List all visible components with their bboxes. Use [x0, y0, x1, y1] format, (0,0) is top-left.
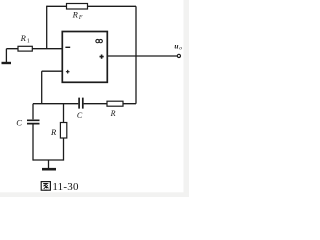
resistor R1: [18, 46, 32, 51]
svg-text:F: F: [78, 15, 83, 21]
wire: parallel R branch vertical lower: [63, 138, 65, 161]
wire: inverting input wire from ground to op-amp: [6, 48, 62, 50]
svg-text:R: R: [20, 33, 27, 43]
resistor R parallel vertical: [60, 123, 66, 139]
terminal uo circle: [177, 54, 180, 57]
wire: feedback left vertical: [46, 6, 48, 49]
op-amp U1 box: [62, 32, 107, 83]
ground at R1 left: lead: [5, 49, 7, 63]
ground bar bottom: [42, 168, 56, 171]
wire: parallel R branch vertical upper: [63, 104, 65, 123]
wire: node B horizontal (right part from series C to corner): [84, 103, 136, 105]
svg-text:C: C: [77, 111, 83, 120]
svg-text:11-30: 11-30: [52, 181, 79, 193]
caption glyph 图 (drawn): [41, 182, 50, 191]
wire: right vertical from top wire through output down to RC branch: [135, 6, 137, 103]
capacitor C series: plates: [79, 98, 83, 109]
svg-text:1: 1: [27, 38, 30, 44]
wire: non-inverting input horizontal: [42, 70, 63, 72]
ground at bottom: lead: [48, 160, 50, 168]
svg-text:u: u: [174, 41, 178, 50]
op-amp infinity gain symbol: [96, 39, 103, 42]
page edge shading right: [184, 0, 190, 197]
resistor RF: [67, 4, 88, 10]
capacitor C parallel: plates: [27, 120, 40, 123]
wire: output wire to terminal: [107, 55, 177, 57]
op-amp minus input sign: [65, 46, 70, 48]
op-amp output plus sign: [100, 55, 104, 59]
wire: node B horizontal (left part to series C): [33, 103, 78, 105]
wire: parallel branch left vertical lower (C plate to bottom wire): [32, 124, 34, 160]
wire: top feedback wire: [47, 5, 136, 7]
wire: bottom wire joining parallel branches: [33, 159, 64, 161]
svg-text:o: o: [179, 46, 182, 52]
svg-text:R: R: [50, 127, 57, 137]
op-amp plus input sign: [66, 70, 70, 74]
wire: parallel branch left vertical upper (node B to C plate): [32, 104, 34, 120]
ground bar left: [2, 62, 12, 64]
svg-text:C: C: [16, 118, 22, 128]
svg-text:R: R: [72, 9, 79, 19]
svg-text:R: R: [110, 109, 116, 118]
resistor R series horizontal: [107, 101, 123, 106]
wire: non-inverting input vertical down to node B: [41, 71, 43, 104]
page edge shading bottom: [0, 192, 189, 197]
